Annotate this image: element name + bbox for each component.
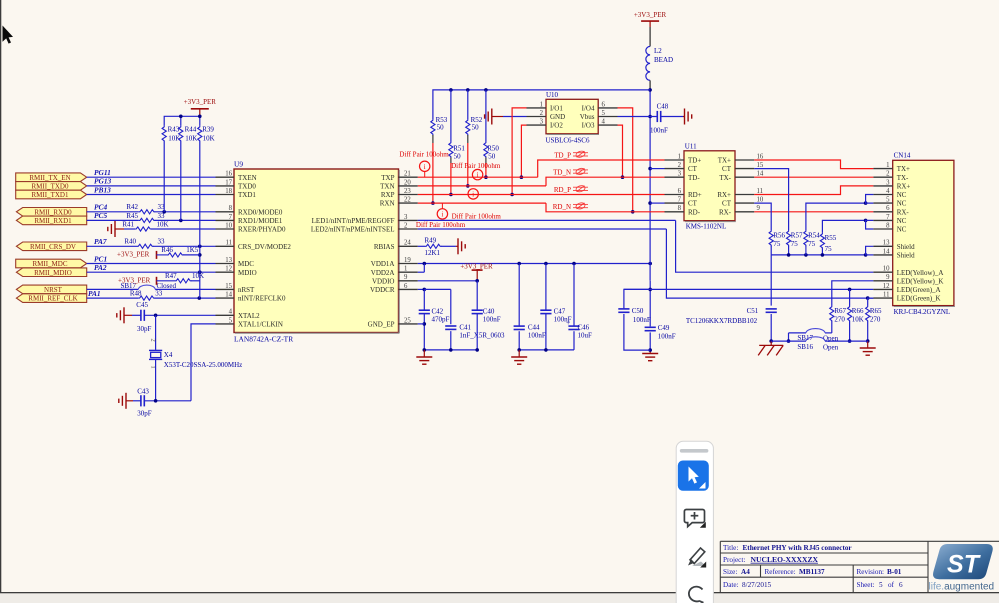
wire C43 to XTAL1 xyxy=(144,400,191,402)
svg-text:C40: C40 xyxy=(483,308,495,316)
svg-text:2: 2 xyxy=(540,110,544,117)
svg-text:TX-: TX- xyxy=(897,174,909,182)
svg-text:6: 6 xyxy=(899,581,903,589)
svg-text:R43: R43 xyxy=(168,126,180,134)
svg-text:RX-: RX- xyxy=(897,208,910,216)
svg-text:25: 25 xyxy=(404,317,411,324)
wire GND_EP pin25 xyxy=(418,323,425,325)
solder bridge SB16 Open xyxy=(806,337,825,341)
resistor R67 270 xyxy=(830,306,834,322)
port RMII_RXD1 xyxy=(16,216,86,225)
svg-text:+3V3_PER: +3V3_PER xyxy=(184,98,217,106)
svg-text:100nF: 100nF xyxy=(658,332,676,340)
CN14 pin 11 LED(Green)_K xyxy=(873,297,892,299)
capacitor C47 100nF xyxy=(545,264,547,311)
svg-text:VDDIO: VDDIO xyxy=(372,277,395,285)
svg-text:75: 75 xyxy=(825,245,833,253)
ground at U10 pin2 xyxy=(485,109,492,125)
wire RMII_CRS_DV with R40 to U9 pin 11 xyxy=(87,245,137,247)
svg-text:RMII_TXD0: RMII_TXD0 xyxy=(32,183,69,191)
svg-text:75: 75 xyxy=(773,240,781,248)
wire SB17 row xyxy=(789,332,807,334)
svg-text:RMII_REF_CLK: RMII_REF_CLK xyxy=(28,295,77,303)
svg-text:10K: 10K xyxy=(185,134,197,142)
U11 pin 11 RX+ xyxy=(735,194,754,196)
U10 pin 5 Vbus xyxy=(598,116,617,118)
svg-text:14: 14 xyxy=(757,171,764,178)
resistor R41 10K xyxy=(135,227,151,231)
CN14 pin 12 LED(Green)_A xyxy=(873,288,892,290)
svg-text:NC: NC xyxy=(897,226,907,234)
svg-text:50: 50 xyxy=(472,124,480,132)
wire U11 CT pin2 to 3V3 xyxy=(650,168,664,170)
svg-text:GND: GND xyxy=(550,113,565,121)
ground at C43 xyxy=(119,393,126,409)
svg-text:R39: R39 xyxy=(202,126,214,134)
U11 pin 9 RX- xyxy=(735,211,754,213)
inductor L2 BEAD xyxy=(646,46,650,80)
svg-text:12: 12 xyxy=(225,266,232,273)
svg-text:7: 7 xyxy=(229,214,233,221)
svg-text:I/O3: I/O3 xyxy=(582,122,595,130)
capacitor C42 470pF xyxy=(423,289,425,310)
directive marker 1 xyxy=(420,161,430,171)
svg-text:Size:: Size: xyxy=(723,568,737,576)
svg-text:3: 3 xyxy=(886,179,890,186)
wire R67 to SB17 row xyxy=(831,322,833,333)
svg-text:R54: R54 xyxy=(808,232,820,240)
wire 3V3 to LED(Green)_A xyxy=(624,288,874,290)
CN14 pin 6 RX- xyxy=(873,211,892,213)
svg-text:CT: CT xyxy=(688,165,698,173)
wire U10 I/O2 to TXP xyxy=(521,125,526,177)
svg-text:RBIAS: RBIAS xyxy=(374,243,395,251)
resistor R52 50 xyxy=(467,90,469,119)
crystal X4 X53T-C20SSA-25.000MHz xyxy=(149,349,162,351)
svg-text:19: 19 xyxy=(404,257,411,264)
port RMII_TXD1 xyxy=(16,190,87,199)
resistor R56 75 xyxy=(769,230,773,246)
U9 pin 15 nRST xyxy=(216,288,235,290)
svg-text:of: of xyxy=(888,581,895,589)
svg-text:RD_P: RD_P xyxy=(554,186,571,194)
wire SB16 row xyxy=(771,340,806,342)
svg-text:6: 6 xyxy=(404,283,408,290)
svg-text:10K: 10K xyxy=(852,315,864,323)
svg-text:Diff Pair 100ohm: Diff Pair 100ohm xyxy=(452,212,502,220)
svg-text:L2: L2 xyxy=(654,47,662,55)
resistor R43 10K xyxy=(162,126,166,142)
U9 pin 6 VDDCR xyxy=(399,288,418,290)
U9 pin 1 VDD2A xyxy=(399,271,418,273)
resistor R50 50 xyxy=(485,90,487,142)
svg-text:Reference:: Reference: xyxy=(765,568,796,576)
wire CT15 to R57 xyxy=(754,169,788,230)
svg-text:TXD1: TXD1 xyxy=(238,191,256,199)
svg-text:Open: Open xyxy=(823,344,839,352)
resistor R49 12K1 xyxy=(425,244,441,248)
svg-text:4: 4 xyxy=(886,188,890,195)
U9 pin 17 TXD0 xyxy=(216,185,235,187)
wire C50 bottom xyxy=(624,314,650,350)
svg-text:B-01: B-01 xyxy=(887,568,902,576)
U11 pin 14 TX- xyxy=(735,176,754,178)
port RMII_CRS_DV xyxy=(16,242,86,251)
svg-text:17: 17 xyxy=(225,179,232,186)
svg-text:R65: R65 xyxy=(870,307,882,315)
ground at C45 xyxy=(117,307,124,323)
svg-text:nINT/REFCLK0: nINT/REFCLK0 xyxy=(238,295,286,303)
svg-text:1: 1 xyxy=(540,101,543,108)
wire RXN diff xyxy=(418,202,546,204)
svg-text:LED(Green)_A: LED(Green)_A xyxy=(897,286,941,294)
U11 pin 8 RD- xyxy=(665,211,685,213)
wire R44 to RXD1 row xyxy=(180,142,182,221)
CN14 pin 9 LED(Yellow)_K xyxy=(873,280,892,282)
wire NRST to U9 pin 15 with solder bridge SB17 xyxy=(87,288,139,290)
svg-text:10: 10 xyxy=(225,222,232,229)
svg-text:LAN8742A-CZ-TR: LAN8742A-CZ-TR xyxy=(234,335,293,344)
mouse cursor xyxy=(3,26,14,44)
resistor R54 75 xyxy=(804,230,808,246)
svg-text:R42: R42 xyxy=(126,203,138,211)
svg-text:33: 33 xyxy=(158,238,166,246)
svg-text:Title:: Title: xyxy=(723,544,738,552)
svg-text:4: 4 xyxy=(602,119,606,126)
svg-text:SB16: SB16 xyxy=(797,343,813,351)
U10 pin 2 GND xyxy=(527,116,547,118)
ui pencil tool xyxy=(688,559,695,566)
capacitor C49 100nF xyxy=(645,326,656,328)
wire R51 to RXP xyxy=(450,158,452,164)
svg-text:X4: X4 xyxy=(164,351,173,359)
U9 pin 4 XTAL2 xyxy=(216,314,235,316)
svg-text:Sheet:: Sheet: xyxy=(857,581,875,589)
U9 pin 8 RXD0/MODE0 xyxy=(216,211,235,213)
U9 pin 11 CRS_DV/MODE2 xyxy=(216,245,235,247)
svg-text:18: 18 xyxy=(225,188,232,195)
svg-text:TX+: TX+ xyxy=(897,165,910,173)
wire R54 to NC pins 4 5 xyxy=(806,203,866,230)
U9 pin 3 LED1/nINT/nPME/REGOFF xyxy=(399,219,418,221)
svg-text:TX-: TX- xyxy=(719,174,731,182)
svg-text:10K: 10K xyxy=(157,220,169,228)
svg-text:CN14: CN14 xyxy=(894,152,911,160)
svg-text:RX-: RX- xyxy=(719,208,732,216)
svg-text:6: 6 xyxy=(602,101,606,108)
connector CN14 KRJ-CB4.2GYZNL xyxy=(893,160,954,305)
svg-text:+3V3_PER: +3V3_PER xyxy=(118,277,151,285)
svg-text:1nF_X5R_0603: 1nF_X5R_0603 xyxy=(459,332,505,340)
wire termination rail xyxy=(433,90,650,119)
svg-text:22: 22 xyxy=(404,197,411,204)
svg-text:C43: C43 xyxy=(137,388,149,396)
svg-text:PG11: PG11 xyxy=(94,168,111,177)
svg-text:R52: R52 xyxy=(471,116,483,124)
svg-text:75: 75 xyxy=(808,240,816,248)
svg-text:I/O2: I/O2 xyxy=(550,122,563,130)
svg-text:270: 270 xyxy=(870,315,881,323)
svg-text:USBLC6-4SC6: USBLC6-4SC6 xyxy=(546,136,590,144)
wire C41 bottom xyxy=(450,331,452,350)
svg-text:I/O1: I/O1 xyxy=(550,105,563,113)
svg-text:+3V3_PER: +3V3_PER xyxy=(117,251,150,259)
ground at C48 xyxy=(685,109,692,125)
U9 pin 10 RXER/PHYAD0 xyxy=(216,228,235,230)
capacitor C44 100nF xyxy=(518,264,520,327)
svg-text:1K5: 1K5 xyxy=(186,246,199,254)
CN14 pin 10 LED(Yellow)_A xyxy=(873,271,892,273)
port RMII_RXD0 xyxy=(16,208,86,217)
resistor R53 50 xyxy=(431,119,435,135)
svg-text:R67: R67 xyxy=(834,307,846,315)
svg-text:RD-: RD- xyxy=(688,208,701,216)
svg-text:CT: CT xyxy=(722,200,732,208)
resistor R47 10K xyxy=(175,279,191,283)
ui lasso tool partial xyxy=(689,587,704,603)
svg-text:C46: C46 xyxy=(578,324,590,332)
svg-text:RXD0/MODE0: RXD0/MODE0 xyxy=(238,208,283,216)
wire LED(Yellow)_K xyxy=(832,281,874,306)
svg-text:ST: ST xyxy=(947,551,982,579)
svg-text:5: 5 xyxy=(886,197,890,204)
wire TXN diff xyxy=(418,185,546,187)
ui drag handle xyxy=(680,449,709,453)
U9 pin 14 nINT/REFCLK0 xyxy=(216,297,235,299)
svg-text:U10: U10 xyxy=(546,91,559,99)
svg-text:PA7: PA7 xyxy=(94,237,107,246)
wire U10 I/O3 to TD_N xyxy=(618,125,623,177)
svg-text:NC: NC xyxy=(897,191,907,199)
wire RMII_MDIO to U9 pin 12 xyxy=(87,271,216,273)
CN14 pin 14 Shield xyxy=(873,254,892,256)
solder bridge SB17 Closed xyxy=(138,285,155,289)
svg-text:R44: R44 xyxy=(185,126,197,134)
svg-text:20: 20 xyxy=(404,179,411,186)
U11 pin 6 RD+ xyxy=(665,194,685,196)
svg-text:12K1: 12K1 xyxy=(425,249,441,257)
U11 pin 16 TX+ xyxy=(735,159,754,161)
svg-text:13: 13 xyxy=(883,240,890,247)
svg-text:8: 8 xyxy=(678,205,682,212)
svg-text:RMII_MDIO: RMII_MDIO xyxy=(34,269,72,277)
ground under C44 xyxy=(511,357,527,364)
CN14 pin 1 TX+ xyxy=(873,168,892,170)
wire R41 to U9 pin 10 xyxy=(124,228,135,230)
wire U10 I/O1 to RXP xyxy=(512,108,526,195)
wire RX- xyxy=(754,211,873,213)
op-amp U9 body LAN8742A-CZ-TR xyxy=(234,169,399,333)
ground at R49 xyxy=(458,238,465,254)
wire Vbus to 3V3 and C48 xyxy=(618,116,658,118)
wire R55 to NC pins 7 8 xyxy=(822,220,865,232)
capacitor C50 100nF xyxy=(624,289,650,308)
U9 pin 19 VDD1A xyxy=(399,263,418,265)
wire C42 to GND_EP and ground rail xyxy=(423,314,425,350)
svg-text:6: 6 xyxy=(678,188,682,195)
svg-text:RMII_TXD1: RMII_TXD1 xyxy=(32,191,69,199)
wire LED2 to LED(Green)_K xyxy=(418,228,667,230)
svg-text:PC5: PC5 xyxy=(94,211,107,220)
wire R47 to REFCLK row xyxy=(191,280,200,282)
CN14 pin 3 RX+ xyxy=(873,185,892,187)
svg-text:R49: R49 xyxy=(425,236,437,244)
capacitor C51 TC1206KKX7RDBB102 xyxy=(766,308,777,310)
svg-text:C47: C47 xyxy=(554,308,566,316)
U9 pin 20 TXN xyxy=(399,185,418,187)
capacitor C41 1nF_X5R_0603 xyxy=(445,325,456,327)
port NRST xyxy=(16,285,86,294)
ground under C42 xyxy=(416,357,432,364)
svg-text:R53: R53 xyxy=(436,116,448,124)
wire TX- xyxy=(754,176,873,178)
CN14 pin 5 NC xyxy=(873,202,892,204)
wire LED1 to LED(Yellow)_A xyxy=(418,219,676,221)
svg-text:C42: C42 xyxy=(432,308,444,316)
wire L2 to termination rail and VDD rail xyxy=(649,80,651,90)
svg-text:2: 2 xyxy=(678,162,682,169)
area below sheet xyxy=(0,593,999,603)
wire VDDIO xyxy=(418,280,477,282)
sheet left border xyxy=(0,0,2,593)
svg-text:VDD1A: VDD1A xyxy=(371,260,395,268)
svg-text:+3V3_PER: +3V3_PER xyxy=(460,262,493,270)
wire RXP / RD_P diff xyxy=(418,194,665,196)
wire to L2 xyxy=(649,27,651,46)
port RMII_MDC xyxy=(16,259,87,268)
svg-text:100nF: 100nF xyxy=(483,316,501,324)
svg-text:16: 16 xyxy=(225,171,232,178)
wire TX+ xyxy=(754,160,873,169)
svg-text:100nF: 100nF xyxy=(650,127,668,135)
U11 pin 7 CT xyxy=(665,202,685,204)
CN14 pin 2 TX- xyxy=(873,176,892,178)
svg-text:TXEN: TXEN xyxy=(238,174,257,182)
svg-text:C41: C41 xyxy=(459,324,471,332)
resistor R65 270 xyxy=(868,298,874,305)
svg-text:RXER/PHYAD0: RXER/PHYAD0 xyxy=(238,226,286,234)
resistor R42 33 xyxy=(139,210,155,214)
wire R43 to RXD0 row xyxy=(163,142,165,212)
port RMII_REF_CLK xyxy=(16,294,86,303)
wire shield rail xyxy=(770,246,772,255)
svg-text:RMII_MDC: RMII_MDC xyxy=(32,260,67,268)
U9 pin 16 TXEN xyxy=(216,176,235,178)
svg-text:15: 15 xyxy=(225,283,232,290)
svg-text:Ethernet PHY with RJ45 connect: Ethernet PHY with RJ45 connector xyxy=(743,544,853,552)
U9 pin 23 RXP xyxy=(399,194,418,196)
svg-text:9: 9 xyxy=(886,274,890,281)
ui select tool button xyxy=(678,461,709,491)
svg-text:1: 1 xyxy=(404,266,407,273)
CN14 pin 4 NC xyxy=(873,194,892,196)
svg-text:KRJ-CB4.2GYZNL: KRJ-CB4.2GYZNL xyxy=(894,308,951,316)
chassis ground xyxy=(758,345,783,355)
svg-text:8: 8 xyxy=(886,222,890,229)
svg-text:RMII_TX_EN: RMII_TX_EN xyxy=(29,174,70,182)
resistor R44 10K xyxy=(179,126,183,142)
transformer U11 KMS-1102NL xyxy=(684,151,735,221)
svg-text:TD_N: TD_N xyxy=(553,169,571,177)
wire RMII_REF_CLK with R48 to U9 pin 14 xyxy=(87,297,139,299)
wire VDD1A rail xyxy=(418,263,650,265)
svg-text:16: 16 xyxy=(757,153,764,160)
svg-text:30pF: 30pF xyxy=(137,410,152,418)
U11 pin 10 CT xyxy=(735,202,754,204)
svg-text:7: 7 xyxy=(886,214,890,221)
svg-text:50: 50 xyxy=(454,153,462,161)
capacitor C45 30pF xyxy=(132,314,141,316)
svg-text:11: 11 xyxy=(883,292,890,299)
svg-text:CRS_DV/MODE2: CRS_DV/MODE2 xyxy=(238,243,291,251)
svg-text:MDC: MDC xyxy=(238,260,254,268)
CN14 pin 13 Shield xyxy=(873,245,892,247)
svg-text:i: i xyxy=(477,170,479,179)
svg-text:Shield: Shield xyxy=(897,252,915,260)
power +3V3_PER top left xyxy=(191,108,209,110)
wire XTAL2 node to crystal xyxy=(155,315,157,350)
U11 pin 15 CT xyxy=(735,168,754,170)
svg-text:VDDCR: VDDCR xyxy=(370,286,395,294)
U9 pin 18 TXD1 xyxy=(216,194,235,196)
svg-text:470pF: 470pF xyxy=(432,316,450,324)
svg-text:NC: NC xyxy=(897,217,907,225)
svg-text:33: 33 xyxy=(158,212,166,220)
svg-text:75: 75 xyxy=(791,240,799,248)
svg-text:LED(Green)_K: LED(Green)_K xyxy=(897,295,941,303)
wire C44 bottom xyxy=(518,331,520,350)
svg-text:10: 10 xyxy=(757,197,764,204)
svg-text:NRST: NRST xyxy=(44,286,63,294)
wire R39 down through CRS_DV MDIO REFCLK rows xyxy=(199,142,201,247)
wire R53 to RXN xyxy=(432,135,434,143)
svg-text:11: 11 xyxy=(225,240,232,247)
svg-text:100nF: 100nF xyxy=(633,316,651,324)
solder bridge SB17 Open xyxy=(806,329,825,333)
svg-text:R45: R45 xyxy=(126,212,138,220)
svg-text:10K: 10K xyxy=(192,272,204,280)
svg-text:Date:: Date: xyxy=(723,581,739,589)
svg-text:R50: R50 xyxy=(487,145,499,153)
wire R66 to shield gnd row xyxy=(849,322,851,342)
svg-text:RMII_RXD1: RMII_RXD1 xyxy=(34,217,72,225)
svg-text:8: 8 xyxy=(229,205,233,212)
ground at R65 xyxy=(860,348,876,355)
wire VDD2A up to rail xyxy=(418,271,425,273)
U9 pin 21 TXP xyxy=(399,176,418,178)
resistor R39 10K xyxy=(198,126,202,142)
svg-text:X53T-C20SSA-25.000MHz: X53T-C20SSA-25.000MHz xyxy=(164,361,243,369)
svg-text:4: 4 xyxy=(229,309,233,316)
svg-text:Diff Pair 100ohm: Diff Pair 100ohm xyxy=(399,150,449,158)
svg-text:10K: 10K xyxy=(168,134,180,142)
wire RMII_RXD1 with R45 to U9 pin 7 xyxy=(87,219,139,221)
svg-text:R57: R57 xyxy=(791,232,803,240)
wire RBIAS xyxy=(418,245,425,247)
svg-text:Project:: Project: xyxy=(723,556,745,564)
svg-text:+3V3_PER: +3V3_PER xyxy=(634,11,667,19)
svg-text:9: 9 xyxy=(404,274,408,281)
svg-text:RXN: RXN xyxy=(380,200,395,208)
wire R49 to ground xyxy=(441,245,456,247)
U10 pin 4 I/O3 xyxy=(598,124,617,126)
wire pull-up rail xyxy=(164,116,200,125)
svg-text:U11: U11 xyxy=(685,143,697,151)
wire C47 bottom xyxy=(545,314,547,350)
svg-text:21: 21 xyxy=(404,171,411,178)
svg-text:RXD1/MODE1: RXD1/MODE1 xyxy=(238,217,283,225)
U11 pin 1 TD+ xyxy=(665,159,685,161)
